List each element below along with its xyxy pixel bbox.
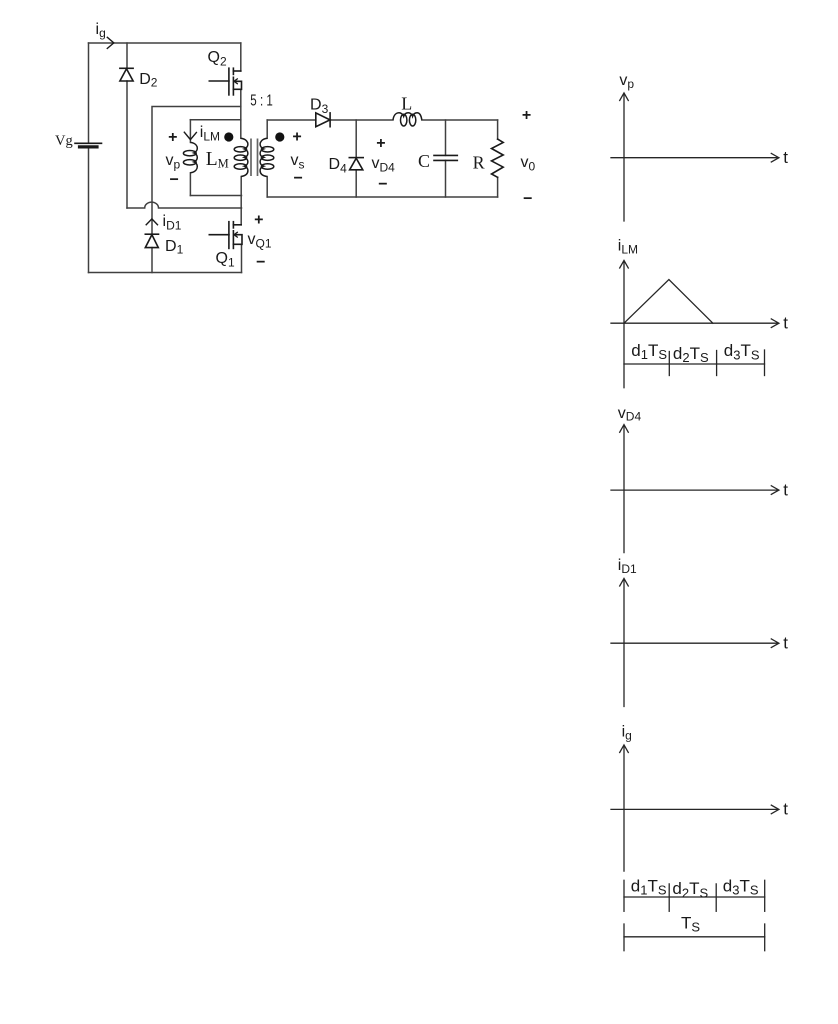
svg-text:iLM: iLM — [200, 124, 220, 144]
svg-text:LM: LM — [206, 149, 229, 170]
svg-text:−: − — [523, 190, 532, 207]
svg-text:t: t — [783, 800, 788, 819]
svg-text:t: t — [783, 314, 788, 333]
svg-text:d3TS: d3TS — [724, 341, 760, 362]
svg-text:Q1: Q1 — [216, 250, 235, 270]
svg-text:iD1: iD1 — [163, 213, 182, 233]
svg-text:vQ1: vQ1 — [248, 231, 272, 250]
svg-text:D1: D1 — [165, 238, 184, 257]
svg-text:iLM: iLM — [618, 238, 638, 257]
svg-text:TS: TS — [681, 913, 700, 934]
svg-text:R: R — [473, 153, 485, 173]
svg-text:+: + — [522, 107, 531, 124]
svg-text:vp: vp — [619, 72, 634, 91]
svg-text:−: − — [378, 176, 387, 193]
svg-text:−: − — [170, 171, 179, 188]
svg-text:D2: D2 — [139, 71, 158, 89]
svg-text:vp: vp — [166, 152, 181, 172]
svg-text:ig: ig — [96, 21, 106, 40]
svg-text:vD4: vD4 — [372, 155, 396, 175]
svg-text:iD1: iD1 — [618, 557, 637, 576]
svg-text:D4: D4 — [329, 156, 348, 176]
svg-text:d2TS: d2TS — [673, 344, 709, 365]
svg-text:C: C — [418, 151, 430, 171]
svg-text:d1TS: d1TS — [631, 876, 667, 897]
svg-text:+: + — [254, 211, 263, 228]
svg-text:t: t — [783, 633, 788, 652]
svg-text:−: − — [256, 254, 265, 271]
svg-text:−: − — [294, 170, 303, 187]
svg-text:+: + — [292, 128, 301, 145]
svg-text:t: t — [783, 148, 788, 167]
svg-text:D3: D3 — [310, 97, 329, 117]
svg-text:5 : 1: 5 : 1 — [250, 93, 273, 110]
svg-text:ig: ig — [622, 723, 632, 742]
svg-text:vD4: vD4 — [618, 405, 642, 424]
svg-text:vs: vs — [291, 152, 305, 172]
svg-text:+: + — [376, 135, 385, 152]
svg-text:d1TS: d1TS — [631, 341, 667, 362]
svg-text:v0: v0 — [521, 154, 536, 174]
svg-text:Q2: Q2 — [208, 49, 227, 69]
svg-text:t: t — [783, 480, 788, 499]
svg-text:d2TS: d2TS — [672, 879, 708, 900]
svg-text:+: + — [168, 129, 177, 146]
svg-text:L: L — [401, 94, 412, 114]
svg-text:d3TS: d3TS — [723, 876, 759, 897]
svg-text:Vg: Vg — [55, 133, 73, 149]
